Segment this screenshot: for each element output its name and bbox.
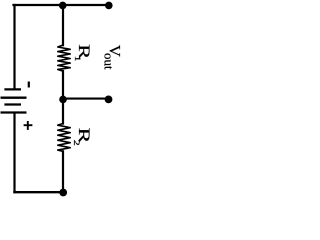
svg-text:R2: R2 <box>72 128 92 146</box>
svg-text:R1: R1 <box>72 44 92 62</box>
